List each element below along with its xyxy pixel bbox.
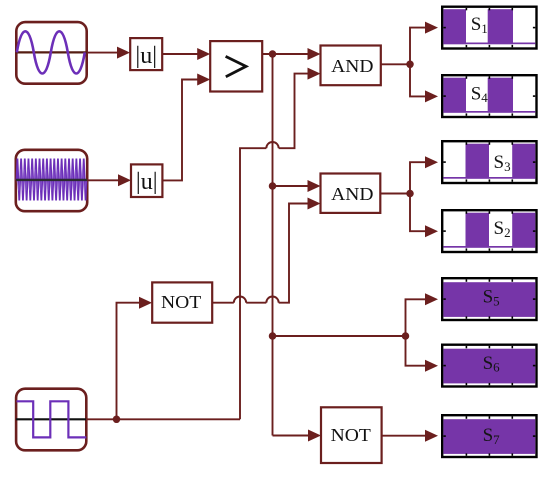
wire AND1 output to branch bbox=[381, 63, 410, 65]
wire tap to S5/S6 branch point bbox=[273, 335, 406, 337]
wire NOT2 output to scope S7 with arrowhead bbox=[382, 430, 438, 442]
wire branch down to scope S6 with arrowhead bbox=[406, 336, 439, 372]
comparator block > bbox=[210, 41, 262, 91]
abs block U2 |u| bbox=[131, 164, 162, 197]
sine wave source block bbox=[16, 22, 87, 84]
NOT gate U3 bbox=[152, 282, 212, 322]
scope S7 bbox=[442, 415, 536, 457]
NOT gate U6 bbox=[321, 407, 382, 463]
scope S3 bbox=[442, 141, 536, 183]
wire square wave up to AND1 in2 with hop and arrowhead bbox=[240, 68, 321, 420]
junction node AND1 branch bbox=[406, 61, 414, 69]
wire square wave output horizontal bbox=[86, 418, 240, 420]
wire NOT1 output to AND2 in2 with two hops and arrowhead bbox=[212, 198, 320, 303]
wire comparator bus to NOT2 with arrowhead bbox=[273, 430, 322, 442]
junction node S5/S6 branch bbox=[402, 332, 410, 340]
square wave source block bbox=[16, 389, 86, 451]
carrier (high-frequency) source block bbox=[16, 150, 87, 211]
AND gate U5 bbox=[321, 174, 381, 213]
wire sine to abs1 with arrowhead bbox=[87, 47, 130, 59]
abs block U1 |u| bbox=[130, 38, 162, 70]
scope S5 bbox=[442, 278, 536, 320]
svg-text:AND: AND bbox=[331, 184, 373, 204]
wire carrier to abs2 with arrowhead bbox=[87, 174, 131, 186]
wire branch up to scope S3 with arrowhead bbox=[410, 156, 438, 193]
wire tap up to NOT1 with arrowhead bbox=[117, 297, 153, 420]
junction node AND2 branch bbox=[406, 190, 414, 198]
scope S1 bbox=[442, 7, 536, 49]
svg-text:NOT: NOT bbox=[161, 292, 202, 312]
junction node S5/S6 tap bbox=[269, 332, 277, 340]
wire AND2 output to branch bbox=[380, 193, 410, 195]
svg-text:|u|: |u| bbox=[136, 169, 158, 195]
scope S2 bbox=[442, 210, 536, 252]
wire abs1 to comparator in1 with arrowhead bbox=[162, 48, 210, 60]
junction node square wave tap bbox=[113, 416, 121, 424]
junction node AND2 in1 tap bbox=[269, 182, 277, 190]
wire branch down to scope S2 with arrowhead bbox=[410, 194, 438, 238]
wire comparator output to AND1 in1 with junction and arrowhead bbox=[262, 48, 320, 60]
wire branch down to scope S4 with arrowhead bbox=[410, 64, 438, 102]
svg-text:NOT: NOT bbox=[331, 425, 372, 445]
wire comparator signal vertical bus bbox=[272, 54, 274, 436]
AND gate U4 bbox=[321, 46, 381, 86]
wire tap to AND2 in1 with arrowhead bbox=[273, 180, 321, 192]
scope S4 bbox=[442, 75, 536, 117]
wire branch up to scope S5 with arrowhead bbox=[406, 293, 439, 336]
junction node comparator output bbox=[269, 50, 277, 58]
scope S6 bbox=[442, 345, 536, 387]
wire abs2 up to comparator in2 with arrowhead bbox=[162, 74, 210, 181]
svg-text:|u|: |u| bbox=[135, 43, 157, 69]
wire branch up to scope S1 with arrowhead bbox=[410, 22, 438, 65]
svg-text:AND: AND bbox=[331, 56, 373, 76]
